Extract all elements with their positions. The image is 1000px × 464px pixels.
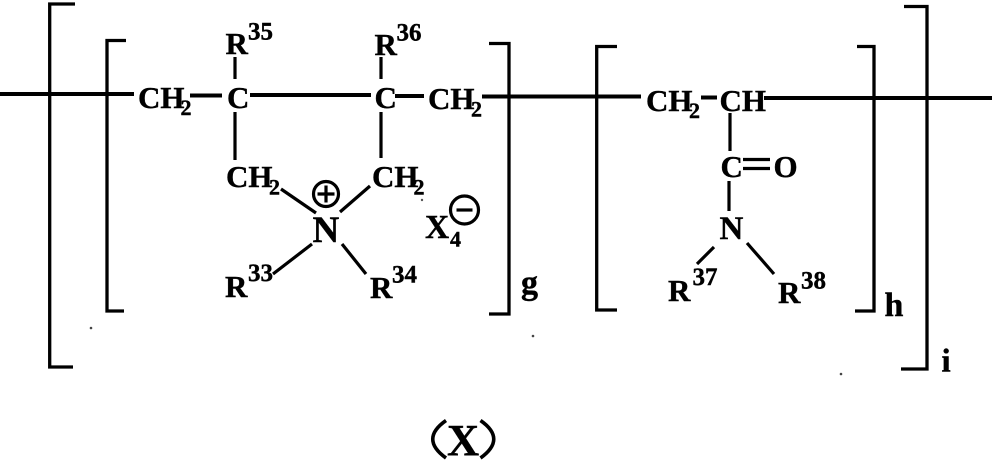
bond N1 to R34 [342,244,366,274]
svg-text:X: X [447,415,479,464]
svg-text:R: R [668,273,691,308]
svg-text:2: 2 [414,175,425,200]
wire bond C1-C2 [250,93,371,97]
svg-text:36: 36 [397,20,422,47]
bond CH2 left to N1 [281,189,316,213]
svg-text:CH: CH [646,83,693,118]
bond N2 to R38 [747,243,774,274]
bond C2 down [379,112,382,158]
bond C1 down [233,112,236,160]
svg-text:38: 38 [801,268,826,295]
svg-text:C: C [227,80,249,115]
svg-text:N: N [720,211,744,247]
svg-text:N: N [313,210,340,251]
svg-text:R: R [225,269,248,304]
unit2 close bracket [855,47,874,312]
unit1 close bracket [489,44,509,315]
bond CH2 right to N1 [340,186,370,212]
wire bond CH2-C1 [190,94,222,98]
svg-text:R: R [226,26,249,61]
wire backbone segment right [764,96,992,100]
outer right bracket [901,7,927,370]
inner left bracket (unit g open) [107,41,126,312]
svg-text:37: 37 [693,264,718,291]
svg-text:CH: CH [372,159,419,194]
svg-text:35: 35 [248,19,273,46]
svg-text:2: 2 [471,97,482,122]
svg-text:R: R [375,27,398,62]
wire bond C2-CH2 [395,94,424,98]
bond C2 to R36 [379,57,382,79]
svg-text:g: g [521,265,538,302]
speck [840,373,843,376]
wire backbone segment middle [482,95,641,99]
svg-text:2: 2 [181,95,192,120]
unit2 open bracket [597,47,617,311]
svg-text:i: i [942,344,951,380]
svg-text:CH: CH [720,83,767,118]
speck [90,327,93,330]
svg-text:C: C [721,149,743,184]
svg-text:34: 34 [392,262,418,289]
wire bond CH2-CH [701,96,717,100]
svg-text:R: R [778,275,801,310]
bond carbonyl C to N2 [727,181,730,211]
svg-text:X: X [425,209,449,246]
svg-text:R: R [370,270,393,305]
svg-text:CH: CH [428,81,475,116]
svg-text:CH: CH [138,80,185,115]
speck [421,199,423,201]
svg-text:CH: CH [226,159,273,194]
minus charge circle [451,196,479,224]
svg-text:2: 2 [269,175,280,200]
outer left bracket [50,4,75,367]
svg-text:h: h [885,287,904,324]
bond N2 to R37 [697,247,714,264]
plus charge circle [314,182,339,207]
svg-text:C: C [375,80,397,115]
svg-text:O: O [774,149,798,184]
wire backbone segment left [0,92,134,96]
bond C1 to R35 [233,57,236,79]
bond CH down to carbonyl C [728,113,731,151]
bond N1 to R33 [273,244,312,274]
speck [532,335,535,338]
svg-text:4: 4 [450,227,461,252]
svg-text:33: 33 [248,260,273,287]
svg-text:2: 2 [689,98,700,123]
